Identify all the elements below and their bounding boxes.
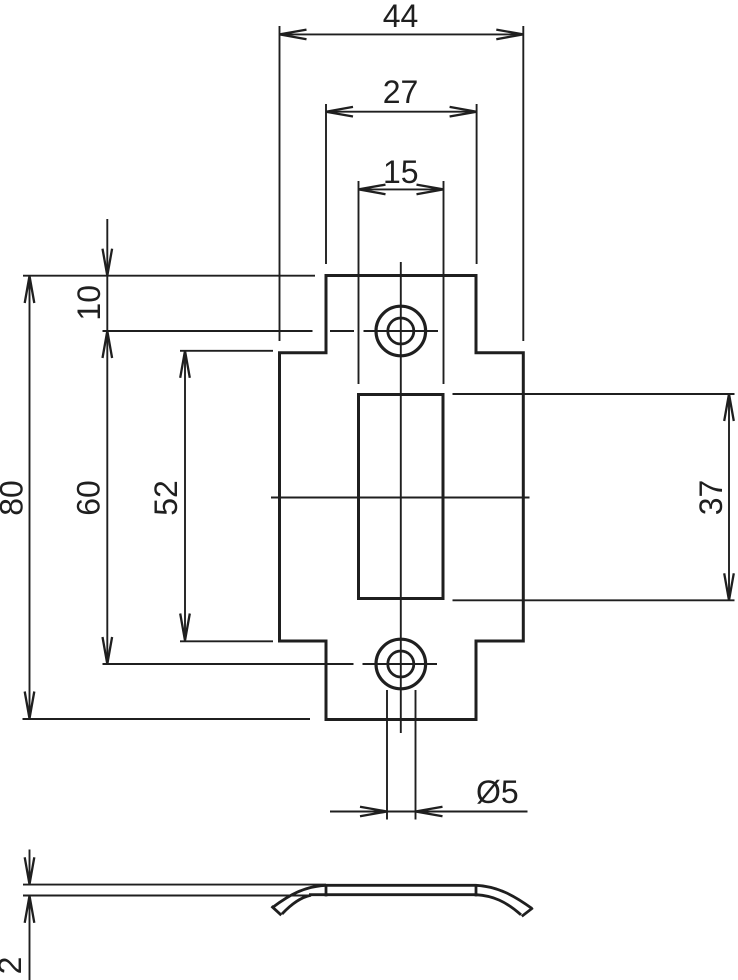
svg-text:10: 10 — [71, 285, 107, 321]
svg-text:Ø5: Ø5 — [476, 774, 519, 810]
svg-text:2: 2 — [0, 957, 28, 975]
svg-text:80: 80 — [0, 480, 30, 516]
svg-text:37: 37 — [693, 480, 729, 516]
svg-text:15: 15 — [383, 154, 419, 190]
svg-text:52: 52 — [148, 480, 184, 516]
svg-text:44: 44 — [383, 0, 419, 34]
svg-text:60: 60 — [71, 480, 107, 516]
svg-text:27: 27 — [383, 74, 419, 110]
